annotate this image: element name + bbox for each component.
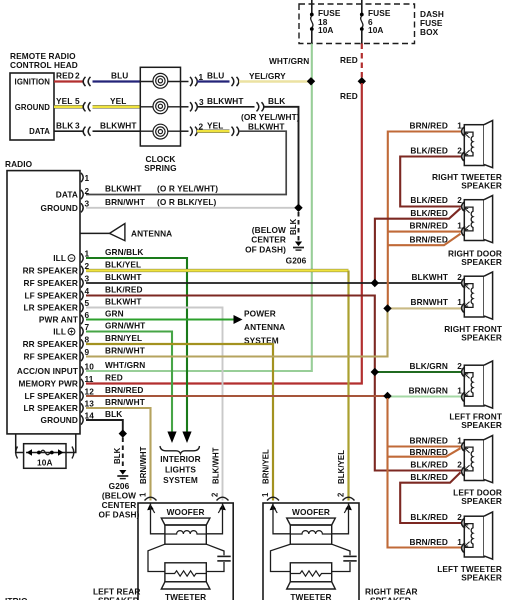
svg-text:+: + [69,329,73,336]
svg-text:BLK: BLK [113,447,122,464]
svg-text:G206: G206 [109,481,130,491]
connector (yel/blkwht) [232,127,239,136]
wire BLK/RED (LF spkr) down to left door [86,296,461,471]
wire BLK/RED right tweeter pin2 to door pin2 [400,157,461,207]
power antenna system arrow [234,309,286,346]
wire RED 2 (ignition) [54,71,84,82]
svg-text:1: 1 [457,121,462,131]
svg-text:BRN/RED: BRN/RED [410,235,449,245]
svg-text:2: 2 [457,460,462,470]
svg-text:YEL/GRY: YEL/GRY [249,71,286,81]
right front speaker symbol [462,272,493,319]
svg-text:10A: 10A [318,25,334,35]
wire BRN/RED (LF spkr) to junction [86,395,388,397]
wire BLK dashed to ground G206 [113,438,123,469]
left tweeter labels [410,512,503,583]
svg-text:BLK/RED: BLK/RED [410,460,448,470]
svg-text:BRN/WHT: BRN/WHT [105,345,145,355]
svg-text:RED: RED [105,372,123,382]
svg-text:BLKWHT: BLKWHT [248,122,285,132]
svg-text:BLU: BLU [207,71,224,81]
svg-text:10: 10 [85,362,95,372]
svg-text:SPEAKER: SPEAKER [370,596,411,600]
svg-text:2: 2 [85,186,90,196]
svg-text:2: 2 [457,512,462,522]
wire BRNWHT to right front pin 1 [388,307,462,309]
svg-text:14: 14 [85,411,95,421]
svg-text:3: 3 [85,274,90,284]
svg-text:PWR ANT: PWR ANT [39,315,78,325]
left tweeter speaker symbol [462,512,493,559]
svg-text:BLKWHT: BLKWHT [105,184,142,194]
svg-text:LF SPEAKER: LF SPEAKER [24,391,78,401]
svg-text:BRN/RED: BRN/RED [410,537,449,547]
radio pin 11 RED [18,372,122,388]
wire YEL to clock spring [93,96,141,107]
connector (clock out 1) [181,72,204,86]
wire BRN/GRN to left front pin 1 [388,395,462,397]
svg-text:BRN/RED: BRN/RED [410,447,449,457]
left rear speaker label [93,587,140,600]
svg-text:BLU: BLU [111,71,128,81]
svg-text:BLKWHT: BLKWHT [105,296,142,306]
svg-text:BRN/WHT: BRN/WHT [105,397,145,407]
wire BRN/YEL (RR spkr) to right rear pin 1 [86,344,273,501]
interior lights arrows [167,432,191,444]
svg-text:OF DASH): OF DASH) [99,510,140,520]
svg-text:BLK: BLK [289,218,298,235]
wire BRN/WHT (RF spkr) up to junction [86,308,388,356]
svg-text:1: 1 [261,492,270,497]
svg-text:RR SPEAKER: RR SPEAKER [23,339,78,349]
svg-text:LIGHTS: LIGHTS [165,465,196,475]
svg-text:SPEAKER: SPEAKER [461,181,502,191]
svg-text:SPEAKER: SPEAKER [461,333,502,343]
wire BLKWHT to clock spring [93,121,141,132]
wire GRN/BLK (ILL-) to interior lights [86,258,187,432]
svg-text:10A: 10A [37,458,53,468]
wire BLKWHT to radio DATA [86,112,300,195]
svg-text:RF SPEAKER: RF SPEAKER [24,352,78,362]
svg-text:2: 2 [337,492,346,497]
wire BLU (pin 1) [197,71,230,82]
svg-text:TWEETER: TWEETER [165,592,206,600]
svg-text:5: 5 [85,298,90,308]
antenna [80,224,172,241]
svg-text:2: 2 [457,195,462,205]
svg-text:LR SPEAKER: LR SPEAKER [24,403,78,413]
junction (whtgrn/yelgry) [307,77,315,85]
svg-text:LR SPEAKER: LR SPEAKER [24,303,78,313]
connector (ground) [83,102,90,111]
svg-text:RED: RED [340,55,358,65]
svg-text:BRN/RED: BRN/RED [410,121,449,131]
radio pin 10 WHT/GRN [17,360,145,376]
wire BLK 3 (data) [54,121,84,132]
wire BRN/RED dup left door [388,448,461,457]
svg-text:WHT/GRN: WHT/GRN [269,56,309,66]
radio pin 6 GRN [39,308,124,324]
right door speaker symbol [462,196,493,243]
svg-text:BLK/RED: BLK/RED [410,208,448,218]
svg-text:BRN/WHT: BRN/WHT [139,446,148,484]
left front labels [409,361,502,430]
svg-text:CENTER: CENTER [102,500,137,510]
svg-text:SYSTEM: SYSTEM [163,475,198,485]
svg-text:GRN/WHT: GRN/WHT [105,320,145,330]
svg-text:BRN/WHT: BRN/WHT [105,197,145,207]
svg-text:ITRIO: ITRIO [5,596,28,600]
radio pin 1 GRN/BLK [53,247,143,263]
svg-text:BRN/RED: BRN/RED [410,436,449,446]
junction (blk/brnwht) [294,204,302,212]
wire BLKWHT (RF spkr) to right front pin 2 [86,282,461,284]
wire BLKWHT (LR spkr) to left rear pin 2 [86,308,223,501]
svg-text:1: 1 [457,297,462,307]
svg-text:BLK/RED: BLK/RED [410,195,448,205]
svg-text:ILL: ILL [53,253,66,263]
svg-text:LF SPEAKER: LF SPEAKER [24,291,78,301]
svg-text:BRN/GRN: BRN/GRN [409,386,448,396]
svg-text:BRN/RED: BRN/RED [410,221,449,231]
svg-text:−: − [69,256,73,263]
svg-text:GRN/BLK: GRN/BLK [105,247,144,257]
svg-text:SPEAKER: SPEAKER [461,573,502,583]
svg-text:CONTROL HEAD: CONTROL HEAD [10,60,78,70]
radio pin 5 BLKWHT [24,296,142,312]
bottom-left clipped text [5,596,28,600]
radio pin 9 BRN/WHT [24,345,145,361]
radio pin 7 GRN/WHT [53,320,145,336]
remote radio control head [10,51,78,140]
radio pin 14 BLK [41,409,123,425]
svg-text:YEL: YEL [56,96,72,106]
svg-text:MEMORY PWR: MEMORY PWR [18,379,78,389]
connector (clock out 3) [181,97,205,111]
wire BLK dashed to ground [289,212,299,241]
svg-text:10A: 10A [368,25,384,35]
right rear speaker (woofer + tweeter) [263,497,359,600]
svg-text:SPEAKER: SPEAKER [461,496,502,506]
svg-text:RED: RED [340,91,358,101]
svg-text:INTERIOR: INTERIOR [160,454,200,464]
wire BRN/RED right tweeter pin1 / door chain [388,132,461,309]
svg-text:SPRING: SPRING [144,163,176,173]
svg-text:WOOFER: WOOFER [292,507,330,517]
wire BLU to clock spring [93,71,141,82]
dash fuse box [299,4,444,44]
ground G206 (below center of dash) [245,225,307,266]
svg-text:BLK/YEL: BLK/YEL [337,450,346,484]
wire RED (fuse 6 to radio memory) [86,83,362,384]
inline fuse 10A [16,434,76,468]
radio pin 8 BRN/YEL [23,333,143,349]
wire BLK/GRN to left front pin 2 [375,371,461,373]
wire YEL 5 (ground) [54,96,84,107]
svg-text:BLK/RED: BLK/RED [410,472,448,482]
svg-text:POWER: POWER [244,309,276,319]
svg-text:GROUND: GROUND [41,203,78,213]
svg-text:GRN: GRN [105,308,124,318]
wire BLK/RED dup left door to left tweeter pin2 [400,472,461,523]
fuse 6 10A [360,0,391,44]
svg-text:BRN/YEL: BRN/YEL [105,333,142,343]
left door speaker symbol [462,436,493,483]
radio pin 4 BLK/RED [24,284,142,300]
wire BLK down to G206 junction [264,96,299,208]
svg-text:GROUND: GROUND [41,415,78,425]
junction (brnred / brngrn) [383,392,391,400]
wire BLK (ground) to G206 [86,420,123,432]
left door labels [410,436,503,507]
svg-text:SPEAKER: SPEAKER [461,420,502,430]
right door labels [410,195,503,267]
svg-text:GROUND: GROUND [15,103,51,112]
svg-text:DATA: DATA [56,190,78,200]
connector (blkwht/blk) [257,102,264,111]
fuse 18 10A [310,0,341,44]
svg-text:1: 1 [457,221,462,231]
svg-text:DATA: DATA [29,127,50,136]
left rear speaker (woofer + tweeter) [138,497,233,600]
wire BRN/RED dup to right door [388,234,461,245]
radio pin 13 BRN/WHT [24,397,145,413]
radio [5,159,80,434]
svg-text:BRNWHT: BRNWHT [411,297,448,307]
svg-text:RR SPEAKER: RR SPEAKER [23,266,78,276]
wire RED dashed (fuse 6) [340,44,362,79]
svg-text:BLK: BLK [105,409,122,419]
connector (ignition) [83,77,90,86]
wire BRN/RED left door pin1 / left tweeter pin1 [388,398,462,548]
svg-text:BLK/RED: BLK/RED [410,146,448,156]
svg-text:1: 1 [457,537,462,547]
ground G206 (radio ground) [99,470,140,520]
svg-text:BLK/RED: BLK/RED [410,512,448,522]
svg-text:BRN/YEL: BRN/YEL [262,449,271,484]
svg-text:2: 2 [75,71,80,81]
junction (blkred / blkgrn) [371,368,379,376]
wire BRN/WHT (LR spkr) to left rear pin 1 [86,408,151,501]
svg-text:(BELOW: (BELOW [252,225,286,235]
svg-text:YEL: YEL [207,121,223,131]
svg-text:ANTENNA: ANTENNA [244,322,285,332]
wire WHT/GRN (fuse 18 to radio ACC) [86,44,312,372]
svg-text:BOX: BOX [420,27,439,37]
svg-text:BLK/GRN: BLK/GRN [410,361,449,371]
svg-text:BLK/YEL: BLK/YEL [105,259,141,269]
svg-text:2: 2 [457,272,462,282]
svg-text:BLK/WHT: BLK/WHT [212,447,221,484]
svg-text:SPEAKER: SPEAKER [98,596,139,600]
radio pin 3 GROUND wire BRN/WHT [41,197,297,213]
right rear speaker label [365,587,418,600]
right tweeter speaker symbol [462,121,493,168]
radio pin 3 BLKWHT [24,272,142,288]
wire BRN/RED 1 to right door [388,231,461,233]
radio pin 12 BRN/RED [24,385,143,401]
svg-text:ACC/ON INPUT: ACC/ON INPUT [17,366,78,376]
left rear rotated wire labels [139,446,221,497]
wire GRN (pwr ant) [86,318,234,320]
svg-text:2: 2 [457,361,462,371]
svg-text:CENTER: CENTER [251,235,286,245]
svg-text:BLK/RED: BLK/RED [105,284,143,294]
svg-text:(O R BLK/YEL): (O R BLK/YEL) [157,197,217,207]
svg-text:TWEETER: TWEETER [290,592,331,600]
svg-text:1: 1 [139,492,148,497]
label WHT/GRN [269,56,309,66]
svg-text:BLKWHT: BLKWHT [411,272,448,282]
right front labels [411,272,502,343]
wire YEL/GRY [239,71,310,82]
svg-text:1: 1 [457,436,462,446]
svg-text:BLKWHT: BLKWHT [105,272,142,282]
radio pin 2 BLK/YEL [23,259,142,275]
svg-text:ANTENNA: ANTENNA [131,229,172,239]
junction (blk ground) [119,429,127,437]
svg-text:SPEAKER: SPEAKER [461,257,502,267]
radio pin 1 (top) [81,173,90,183]
left front speaker symbol [462,361,493,408]
svg-text:WOOFER: WOOFER [167,507,205,517]
svg-text:2: 2 [457,146,462,156]
svg-text:(OR YEL/WHT): (OR YEL/WHT) [241,112,300,122]
right rear rotated wire labels [261,449,346,497]
right tweeter labels [410,121,503,191]
wire BLKWHT (pin 3) [197,96,255,107]
svg-text:IGNITION: IGNITION [15,78,51,87]
svg-text:YEL: YEL [110,96,126,106]
svg-text:RF SPEAKER: RF SPEAKER [24,278,78,288]
svg-text:RED: RED [56,71,74,81]
wire YEL (pin 2) [197,121,230,132]
radio pin 2 DATA wire BLKWHT [56,184,218,200]
svg-text:11: 11 [85,374,94,384]
svg-text:BLKWHT: BLKWHT [207,96,244,106]
svg-text:ILL: ILL [53,327,66,337]
connector (data) [83,127,90,136]
svg-text:1: 1 [85,173,90,183]
svg-text:(BELOW: (BELOW [102,491,136,501]
svg-text:BLKWHT: BLKWHT [100,121,137,131]
svg-text:2: 2 [211,492,220,497]
wire GRN/WHT (ILL+) to interior lights [86,332,172,432]
svg-text:3: 3 [75,121,80,131]
svg-text:BLK: BLK [268,96,285,106]
svg-text:WHT/GRN: WHT/GRN [105,360,145,370]
junction (red) [358,77,366,85]
wire BLK/YEL (RR spkr) to right rear pin 2 [86,271,349,501]
svg-text:5: 5 [75,96,80,106]
clock spring [140,67,180,173]
junction (blkwht / blkred) [371,279,379,287]
svg-text:OF DASH): OF DASH) [245,245,286,255]
svg-text:(O R YEL/WHT): (O R YEL/WHT) [157,184,218,194]
svg-text:RADIO: RADIO [5,159,33,169]
svg-text:3: 3 [199,97,204,107]
svg-text:BRN/RED: BRN/RED [105,385,144,395]
svg-text:G206: G206 [286,256,307,266]
wire BLK/RED dup right door to BLKWHT junction [375,208,461,281]
connector (blu/yelgry) [232,77,239,86]
interior lights system [160,446,201,485]
svg-text:1: 1 [457,386,462,396]
connector (clock out 2) [181,122,204,136]
junction (brnwht / brnred) [383,304,391,312]
svg-text:BLK: BLK [56,121,73,131]
